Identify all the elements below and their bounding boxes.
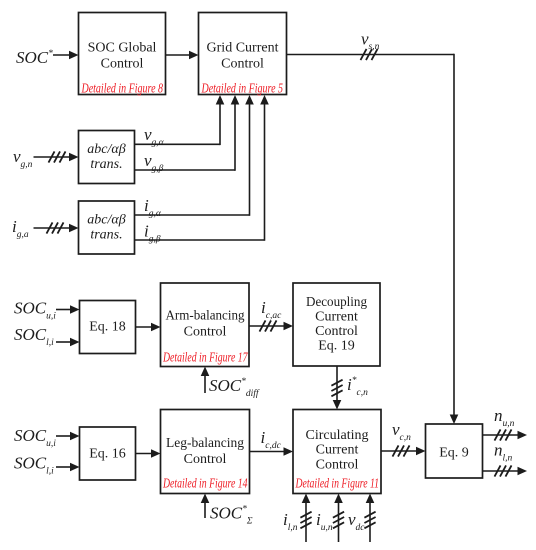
- svg-text:SOCu,i: SOCu,i: [14, 426, 56, 449]
- svg-text:nl,n: nl,n: [494, 441, 513, 464]
- svg-text:Decoupling: Decoupling: [306, 295, 367, 310]
- wire SOC*_diff input arrow: [201, 367, 210, 394]
- wire v_g,beta to Grid Current Control: [135, 95, 240, 171]
- svg-text:abc/αβ: abc/αβ: [87, 142, 125, 157]
- svg-text:trans.: trans.: [90, 157, 122, 172]
- block Grid Current Control: [199, 13, 287, 97]
- label i_g,alpha: [144, 196, 162, 219]
- label v_g,beta: [144, 151, 164, 174]
- svg-text:vc,n: vc,n: [392, 420, 411, 443]
- svg-text:trans.: trans.: [90, 228, 122, 243]
- wire v_s,n horizontal: [287, 54, 455, 56]
- svg-text:vs,n: vs,n: [361, 30, 380, 53]
- label SOC*: [16, 48, 53, 67]
- wire i_c,ac Arm-balancing to Decoupling with bus slashes: [249, 320, 293, 331]
- svg-text:SOC*diff: SOC*diff: [209, 376, 260, 399]
- label SOC*_diff: [209, 376, 260, 399]
- wire v_dc input with bus slashes: [364, 494, 375, 543]
- label i_u,n: [316, 510, 333, 533]
- svg-text:Control: Control: [221, 57, 264, 72]
- label SOC_u,i (arm): [14, 299, 56, 322]
- svg-text:ic,ac: ic,ac: [261, 298, 282, 321]
- wire SOC_l,i to Eq. 18: [56, 338, 80, 347]
- svg-text:vg,n: vg,n: [13, 147, 33, 170]
- svg-text:SOCl,i: SOCl,i: [14, 325, 54, 348]
- svg-text:Detailed in Figure 14: Detailed in Figure 14: [162, 477, 247, 492]
- block abc/ab transform (current): [79, 201, 135, 254]
- wire n_u,n output with bus slashes: [483, 429, 528, 440]
- label v_dc: [348, 510, 365, 533]
- svg-text:il,n: il,n: [283, 510, 298, 533]
- block Eq. 16: [80, 427, 136, 480]
- svg-text:Grid Current: Grid Current: [207, 41, 279, 56]
- label i*_c,n: [347, 375, 368, 398]
- label SOC_l,i (arm): [14, 325, 54, 348]
- wire SOC_u,i to Eq. 16: [56, 432, 80, 441]
- wire v_g,n input with bus slashes: [34, 151, 79, 162]
- svg-text:i*c,n: i*c,n: [347, 375, 368, 398]
- label v_g,n: [13, 147, 33, 170]
- svg-text:ig,β: ig,β: [144, 222, 161, 245]
- svg-text:abc/αβ: abc/αβ: [87, 213, 125, 228]
- svg-text:Arm-balancing: Arm-balancing: [166, 309, 245, 324]
- wire SOC*_Sigma input arrow: [201, 494, 210, 519]
- label i_g,beta: [144, 222, 161, 245]
- svg-text:ic,dc: ic,dc: [261, 428, 282, 451]
- label SOC_l,i (leg): [14, 454, 54, 477]
- label i_l,n: [283, 510, 298, 533]
- label v_s,n: [361, 30, 380, 53]
- svg-text:Detailed in Figure 5: Detailed in Figure 5: [201, 82, 283, 97]
- wire i_u,n input with bus slashes: [333, 494, 344, 543]
- wire i_c,dc Leg-balancing to Circulating: [250, 447, 294, 456]
- svg-text:Control: Control: [184, 452, 227, 467]
- label SOC*_Sigma: [210, 504, 253, 527]
- svg-text:SOC*: SOC*: [16, 48, 53, 67]
- label n_l,n: [494, 441, 513, 464]
- block Decoupling Current Control Eq. 19: [293, 283, 380, 366]
- svg-text:Detailed in Figure 17: Detailed in Figure 17: [162, 351, 248, 366]
- svg-text:Detailed in Figure 11: Detailed in Figure 11: [295, 477, 379, 492]
- wire n_l,n output with bus slashes: [483, 465, 528, 476]
- svg-text:Circulating: Circulating: [306, 428, 369, 443]
- wire i_g,a input with bus slashes: [34, 222, 79, 233]
- label i_g,a: [12, 217, 29, 240]
- block Arm-balancing Control: [161, 283, 250, 367]
- wire SOC* input arrow: [53, 51, 79, 60]
- svg-text:Eq. 18: Eq. 18: [89, 320, 126, 335]
- svg-text:SOC*Σ: SOC*Σ: [210, 504, 253, 527]
- label v_c,n: [392, 420, 411, 443]
- svg-text:nu,n: nu,n: [494, 406, 515, 429]
- svg-text:SOCu,i: SOCu,i: [14, 299, 56, 322]
- wire SOC_l,i to Eq. 16: [56, 463, 80, 472]
- svg-text:Control: Control: [316, 457, 359, 472]
- wire i*_c,n Decoupling to Circulating with bus slashes: [331, 366, 342, 410]
- block Eq. 18: [80, 301, 136, 354]
- wire i_l,n input with bus slashes: [300, 494, 311, 543]
- svg-text:Eq. 19: Eq. 19: [318, 339, 355, 354]
- label i_c,ac: [261, 298, 282, 321]
- block abc/ab transform (voltage): [79, 131, 135, 184]
- wire v_c,n Circulating to Eq. 9 with bus slashes: [381, 445, 426, 456]
- svg-text:Detailed in Figure 8: Detailed in Figure 8: [81, 82, 163, 97]
- svg-text:iu,n: iu,n: [316, 510, 333, 533]
- label n_u,n: [494, 406, 515, 429]
- wire SOC Global Control to Grid Current Control: [166, 51, 199, 60]
- svg-text:Eq. 16: Eq. 16: [89, 447, 126, 462]
- wire v_g,alpha to Grid Current Control: [135, 95, 225, 145]
- label i_c,dc: [261, 428, 282, 451]
- svg-text:Eq. 9: Eq. 9: [439, 446, 469, 461]
- wire i_g,alpha to Grid Current Control: [135, 95, 254, 216]
- svg-text:vdc: vdc: [348, 510, 365, 533]
- block Eq. 9: [426, 424, 483, 478]
- block Circulating Current Control: [293, 410, 381, 494]
- svg-text:Current: Current: [316, 443, 359, 458]
- svg-text:Control: Control: [101, 57, 144, 72]
- svg-text:Control: Control: [315, 324, 358, 339]
- wire i_g,beta to Grid Current Control: [135, 95, 269, 241]
- svg-text:Control: Control: [184, 325, 227, 340]
- wire Eq. 16 to Leg-balancing Control: [136, 449, 161, 458]
- svg-text:SOCl,i: SOCl,i: [14, 454, 54, 477]
- wire v_s,n vertical down to Eq. 9: [450, 54, 459, 424]
- bus slashes on v_s,n wire: [361, 49, 378, 60]
- svg-text:SOC Global: SOC Global: [88, 41, 157, 56]
- block Leg-balancing Control: [161, 410, 250, 494]
- svg-text:Leg-balancing: Leg-balancing: [166, 436, 244, 451]
- label v_g,alpha: [144, 125, 165, 148]
- svg-text:Current: Current: [315, 309, 358, 324]
- wire SOC_u,i to Eq. 18: [56, 305, 80, 314]
- svg-text:ig,a: ig,a: [12, 217, 29, 240]
- block SOC Global Control: [79, 13, 166, 97]
- label SOC_u,i (leg): [14, 426, 56, 449]
- wire Eq. 18 to Arm-balancing Control: [136, 323, 161, 332]
